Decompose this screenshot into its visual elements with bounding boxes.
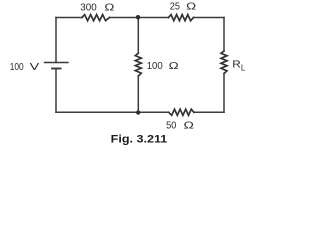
battery V1 long plate (45, 62, 69, 64)
wire right branch lower (223, 74, 225, 113)
svg-text:V: V (30, 62, 40, 73)
wire top-right segment (194, 17, 225, 19)
wire top-left segment (56, 17, 82, 19)
svg-text:100: 100 (147, 61, 163, 72)
svg-text:Ω: Ω (169, 61, 179, 72)
wire bottom-middle segment (56, 111, 169, 113)
svg-text:Ω: Ω (186, 2, 196, 13)
svg-text:25: 25 (170, 2, 180, 13)
wire left branch lower (55, 69, 57, 113)
svg-text:R: R (232, 60, 241, 71)
resistor 50 ohm (169, 109, 194, 115)
svg-text:Ω: Ω (104, 2, 114, 13)
svg-text:Fig. 3.211: Fig. 3.211 (111, 134, 168, 146)
resistor 300 ohm (82, 15, 110, 21)
wire top-middle segment (110, 17, 169, 19)
svg-text:100: 100 (10, 62, 24, 73)
svg-text:50: 50 (166, 120, 177, 131)
battery V1 short plate (52, 68, 61, 70)
svg-text:Ω: Ω (184, 120, 195, 131)
wire middle branch lower (137, 76, 139, 112)
resistor 100 ohm (135, 53, 141, 76)
resistor 25 ohm (169, 15, 194, 21)
svg-text:300: 300 (80, 2, 97, 13)
wire left branch upper (55, 18, 57, 63)
junction node top (136, 15, 140, 19)
resistor RL (221, 51, 227, 74)
wire middle branch upper (137, 18, 139, 54)
svg-text:L: L (241, 64, 246, 73)
junction node bottom (136, 110, 140, 114)
wire bottom-right segment (194, 111, 224, 113)
wire right branch upper (223, 18, 225, 52)
